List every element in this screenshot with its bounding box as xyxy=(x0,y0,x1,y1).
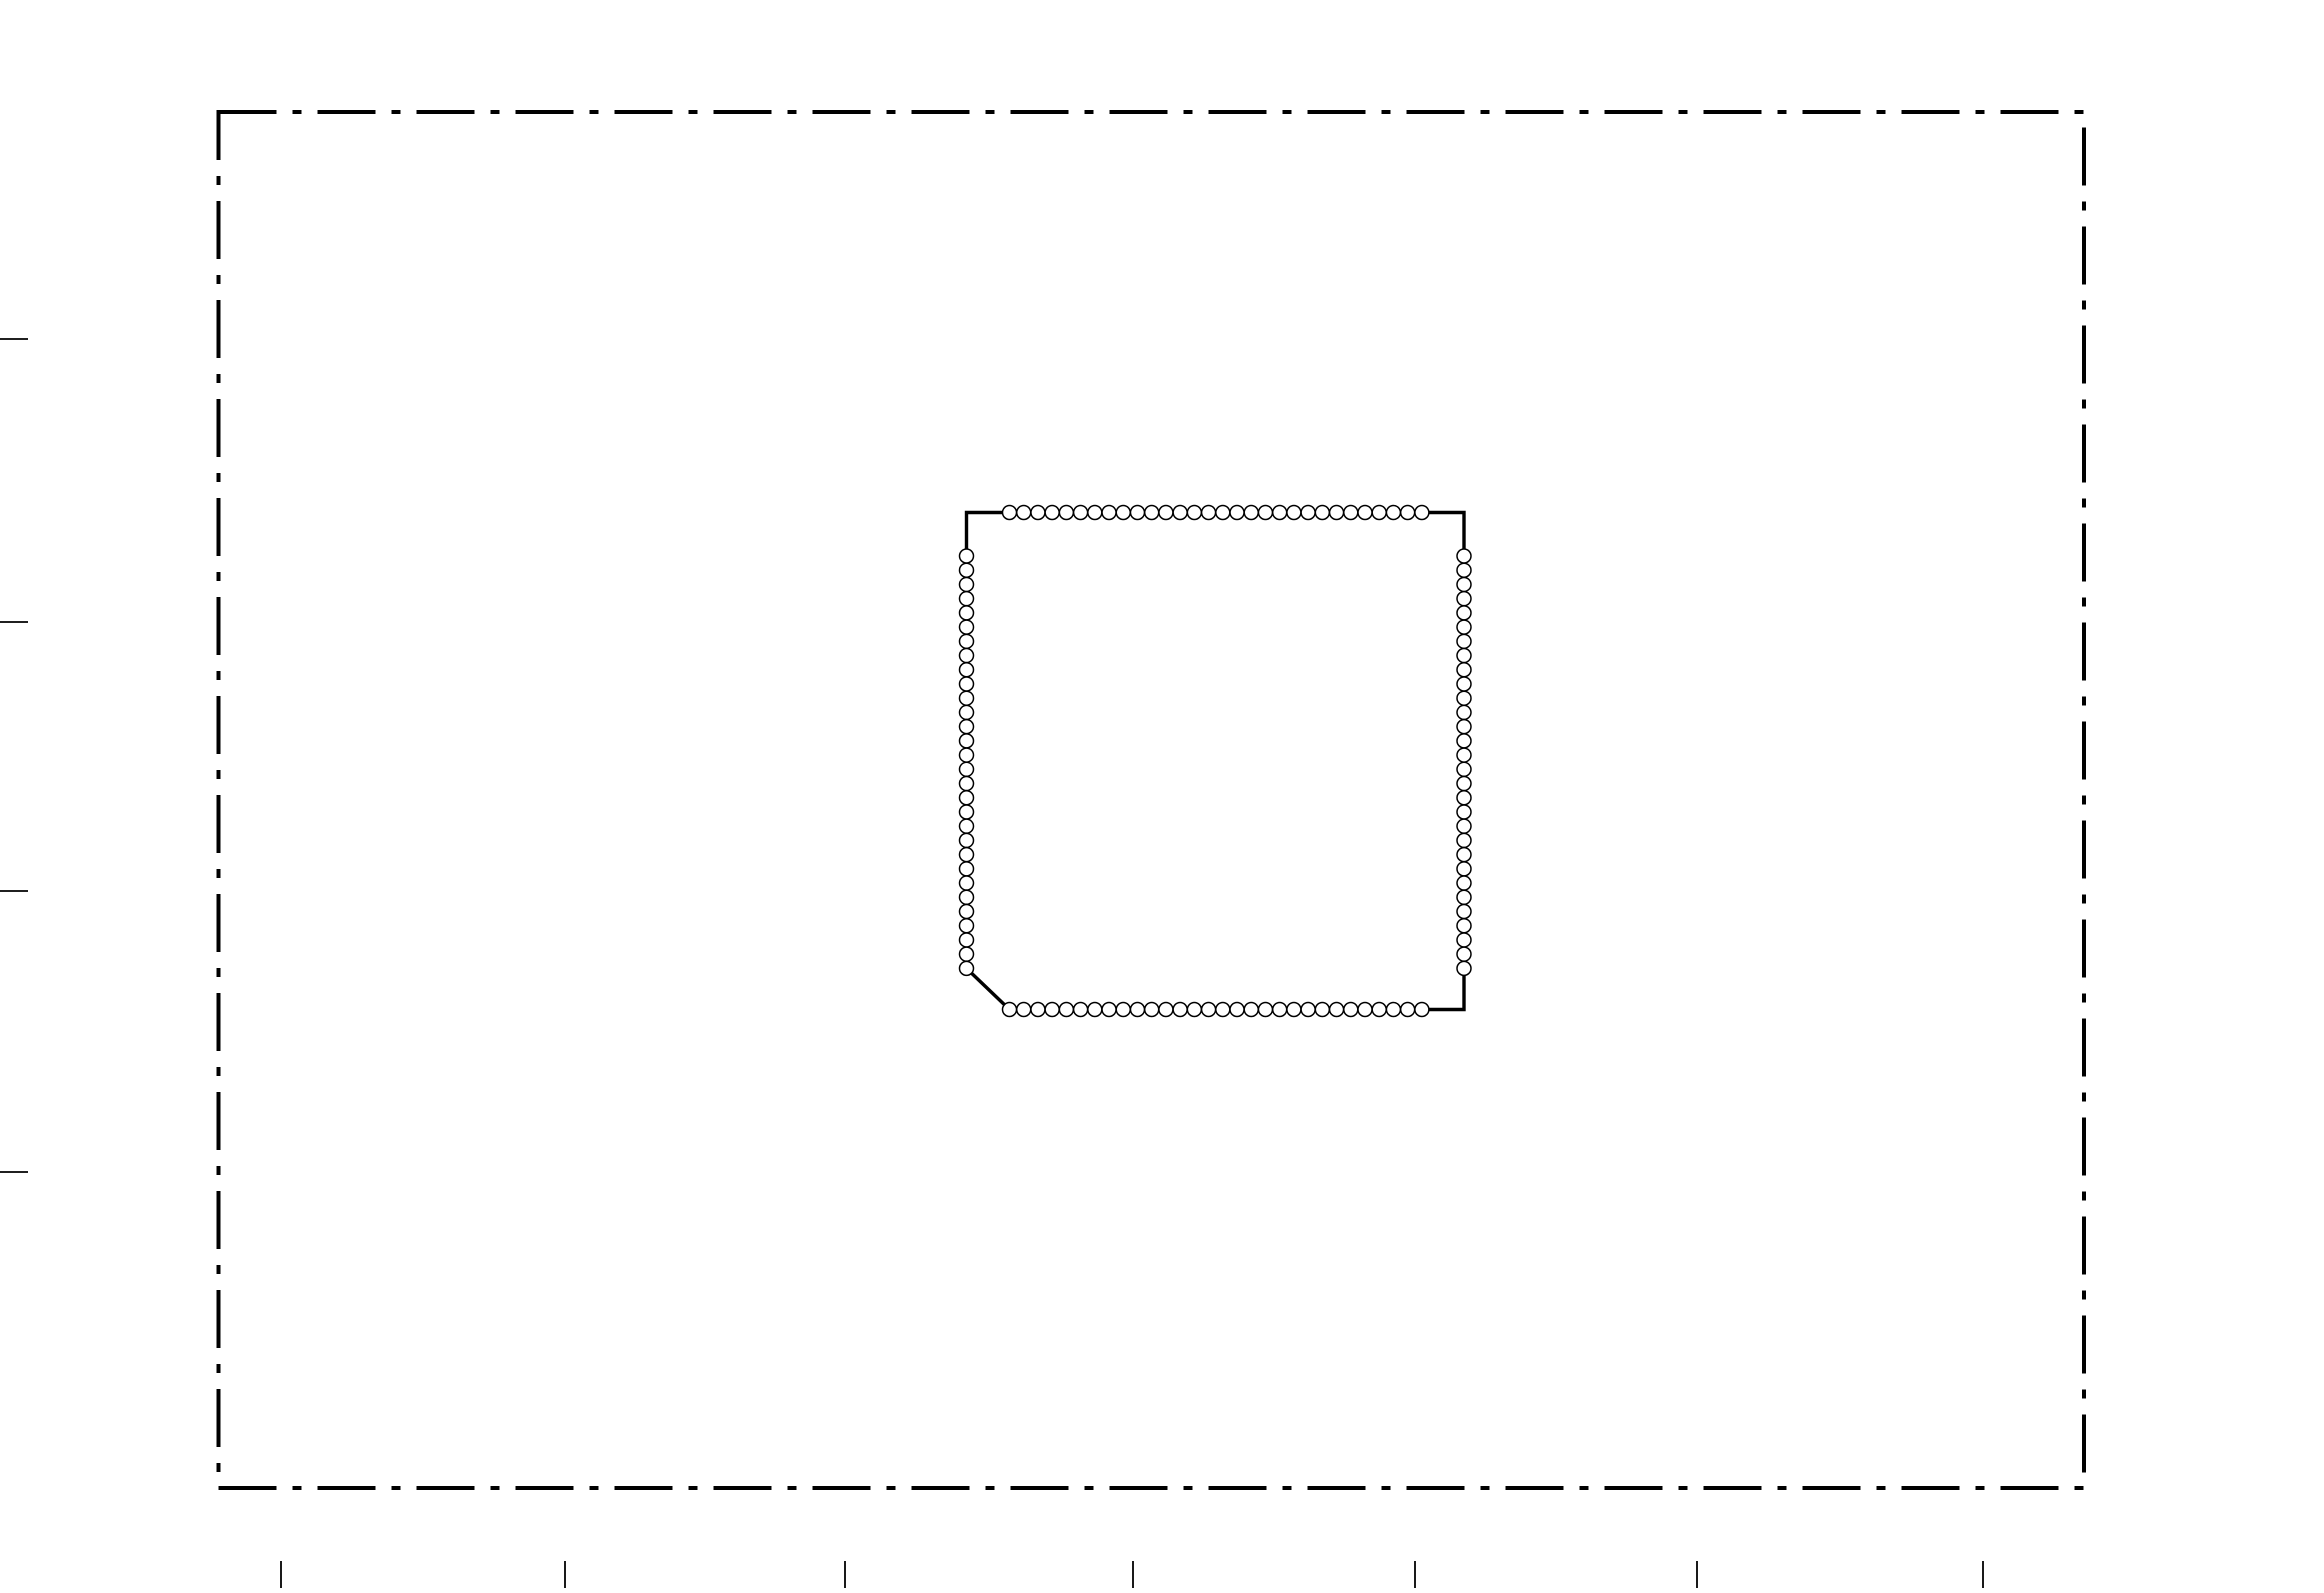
IC U1 left pin column xyxy=(960,549,974,563)
IC U1 bottom pin row xyxy=(1003,1003,1017,1017)
IC U1 top pin row (pins 1-30) xyxy=(1003,506,1017,520)
IC U1 right pin column xyxy=(1457,549,1471,563)
IC U1 body outline xyxy=(967,513,1465,1010)
